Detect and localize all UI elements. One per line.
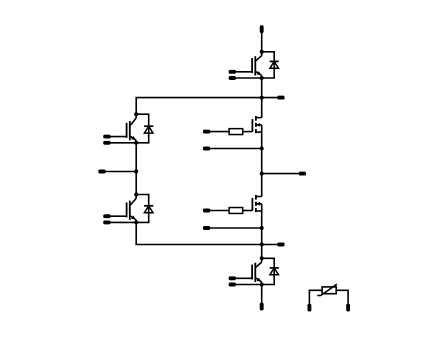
wire IGBT Q3 emitter stub: [135, 220, 137, 223]
MOSFET M1 channel segment 3: [255, 129, 257, 133]
diode D4 cathode bar: [270, 267, 279, 269]
IGBT Q3 gate bar: [126, 203, 128, 218]
MOSFET M2 channel segment 1: [255, 195, 257, 200]
resistor R1: [229, 129, 243, 135]
wire IGBT Q3 collector stub: [135, 195, 137, 199]
pin IGBT Q2 gate: [103, 135, 110, 139]
pin IGBT Q3 kelvin emitter: [103, 220, 110, 224]
node IGBT Q3 emitter: [134, 220, 138, 224]
MOSFET M2 body arrow: [256, 202, 260, 206]
MOSFET M2 channel segment 3: [255, 208, 257, 212]
IGBT Q3 emitter diagonal: [130, 216, 136, 220]
wire IGBT Q2 collector stub: [135, 114, 137, 118]
wire IGBT Q2 kelvin-emitter lead: [107, 142, 136, 144]
thermistor RT1 diagonal strike: [317, 284, 337, 295]
diode D4 triangle: [270, 268, 279, 275]
wire IGBT Q2 emitter stub: [135, 140, 137, 143]
wire bus node1 rail (Q1 emitter to bus1): [261, 78, 263, 98]
wire diode D2 branch: [136, 114, 149, 143]
wire diode D3 branch: [136, 195, 149, 223]
wire M1 kelvin lead: [210, 148, 261, 150]
IGBT Q4 emitter arrow: [257, 278, 262, 282]
wire thermistor left lead: [309, 290, 322, 304]
diode D2 triangle: [144, 126, 153, 133]
wire resistor R1 to gate: [243, 131, 253, 133]
MOSFET M1 channel segment 1: [255, 116, 257, 121]
diode D3 cathode bar: [144, 205, 153, 207]
wire Q2 emitter to left mid junction: [135, 143, 137, 172]
node IGBT Q4 emitter: [260, 283, 264, 287]
wire M2 kelvin lead: [210, 227, 261, 229]
resistor R2: [229, 208, 243, 214]
diode D3 triangle: [144, 206, 153, 213]
wire bus2 to Q4 collector: [261, 245, 263, 259]
pin MOSFET M2 gate: [203, 209, 210, 213]
node IGBT Q1 collector: [260, 50, 264, 54]
IGBT Q2 emitter diagonal: [130, 136, 136, 140]
wire IGBT Q4 gate lead: [232, 277, 252, 279]
IGBT Q1 gate bar: [251, 58, 253, 73]
IGBT Q4 body bar: [254, 263, 256, 282]
node IGBT Q4 collector: [260, 256, 264, 260]
MOSFET M1 body line: [256, 124, 261, 126]
pin P8 left mid terminal: [98, 170, 105, 174]
pin IGBT Q3 gate: [103, 214, 110, 218]
MOSFET M2 body line: [256, 203, 261, 205]
wire MOSFET M1 drain stub: [256, 117, 262, 119]
IGBT Q3 emitter arrow: [131, 216, 136, 220]
pin MOSFET M1 gate: [203, 130, 210, 134]
IGBT Q4 gate bar: [251, 265, 253, 280]
pin P9 thermistor left: [307, 304, 311, 312]
wire midpoint output lead: [262, 173, 299, 175]
wire left mid lead: [106, 171, 137, 173]
IGBT Q2 emitter arrow: [131, 136, 136, 140]
wire kelvin row2 to bus2: [261, 228, 263, 245]
wire MOSFET M1 source stub: [256, 131, 262, 133]
wire IGBT Q3 kelvin-emitter lead: [107, 221, 136, 223]
wire diode D1 branch: [262, 52, 275, 78]
node IGBT Q3 collector: [134, 193, 138, 197]
pin P7 bottom DC- terminal: [260, 303, 264, 311]
pin P3 M1 kelvin source: [203, 147, 210, 151]
wire IGBT Q1 kelvin-emitter lead: [232, 77, 261, 79]
wire gate pin to resistor R1: [207, 131, 230, 133]
pin P6 bus2 right terminal: [277, 243, 284, 247]
node IGBT Q2 collector: [134, 112, 138, 116]
MOSFET M2 channel segment 2: [255, 202, 257, 206]
node M1 kelvin junction: [260, 147, 264, 151]
wire IGBT Q1 collector stub: [261, 52, 263, 56]
pin IGBT Q1 gate: [229, 70, 236, 74]
wire M2 source to kelvin row: [261, 211, 263, 228]
wire M1 source to kelvin row: [261, 132, 263, 148]
pin P5 M2 kelvin source: [203, 226, 210, 230]
pin IGBT Q4 gate: [229, 276, 236, 280]
node left mid junction: [134, 170, 138, 174]
pin IGBT Q1 kelvin emitter: [229, 76, 236, 80]
diode D2 cathode bar: [144, 125, 153, 127]
IGBT Q2 collector diagonal: [130, 118, 136, 126]
thermistor RT1 body: [322, 287, 336, 294]
IGBT Q1 emitter arrow: [257, 71, 262, 75]
IGBT Q2 gate bar: [126, 123, 128, 138]
MOSFET M2 gate bar: [251, 198, 253, 211]
wire resistor R2 to gate: [243, 210, 253, 212]
IGBT Q4 emitter diagonal: [255, 278, 261, 282]
node bus1 junction: [260, 96, 264, 100]
wire left mid to Q3 collector: [135, 172, 137, 195]
wire MOSFET M2 source-body rail: [261, 204, 263, 211]
pin IGBT Q4 kelvin emitter: [229, 283, 236, 287]
wire IGBT Q1 emitter stub: [261, 76, 263, 79]
MOSFET M1 gate bar: [251, 119, 253, 132]
node bus2 junction: [260, 243, 264, 247]
wire midpoint to M2 drain: [261, 174, 263, 197]
wire top terminal to Q1 collector: [261, 29, 263, 52]
wire MOSFET M2 source stub: [256, 210, 262, 212]
wire thermistor right lead: [336, 290, 348, 304]
IGBT Q4 collector diagonal: [255, 262, 261, 268]
pin P2 bus1 right terminal: [277, 96, 284, 100]
IGBT Q1 body bar: [254, 56, 256, 75]
wire bus1 horizontal with left drop: [136, 98, 277, 115]
wire IGBT Q1 gate lead: [232, 71, 252, 73]
node midpoint junction: [260, 172, 264, 176]
diode D1 cathode bar: [270, 60, 279, 62]
wire bus2 horizontal with left rise: [136, 222, 277, 244]
pin P1 top DC+ terminal: [260, 25, 264, 33]
IGBT Q1 collector diagonal: [255, 56, 261, 62]
wire diode D4 branch: [262, 258, 275, 284]
wire MOSFET M1 source-body rail: [261, 125, 263, 132]
IGBT Q2 body bar: [129, 121, 131, 140]
pin P10 thermistor right: [346, 304, 350, 312]
IGBT Q1 emitter diagonal: [255, 71, 261, 75]
wire IGBT Q4 kelvin-emitter lead: [232, 284, 261, 286]
node M2 kelvin junction: [260, 226, 264, 230]
MOSFET M1 body arrow: [256, 123, 260, 127]
node IGBT Q1 emitter: [260, 76, 264, 80]
wire bus1 to M1 drain: [261, 98, 263, 118]
MOSFET M1 channel segment 2: [255, 123, 257, 127]
pin IGBT Q2 kelvin emitter: [103, 141, 110, 145]
wire IGBT Q3 gate lead: [107, 215, 127, 217]
IGBT Q3 body bar: [129, 201, 131, 220]
node IGBT Q2 emitter: [134, 141, 138, 145]
wire Q4 emitter to bottom terminal: [261, 285, 263, 304]
IGBT Q3 collector diagonal: [130, 198, 136, 205]
diode D1 triangle: [270, 61, 279, 68]
wire kelvin row to midpoint: [261, 149, 263, 174]
wire IGBT Q4 emitter stub: [261, 282, 263, 285]
wire IGBT Q2 gate lead: [107, 136, 127, 138]
wire gate pin to resistor R2: [207, 210, 230, 212]
wire MOSFET M2 drain stub: [256, 196, 262, 198]
pin P4 midpoint AC terminal: [299, 172, 306, 176]
wire IGBT Q4 collector stub: [261, 258, 263, 262]
